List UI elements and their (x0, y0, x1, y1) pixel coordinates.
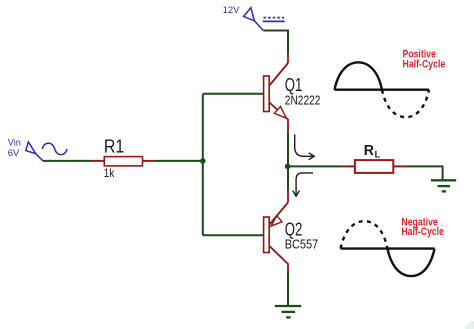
svg-text:R1: R1 (104, 137, 124, 157)
svg-text:Vin: Vin (8, 137, 21, 147)
svg-text:Half-Cycle: Half-Cycle (403, 59, 446, 71)
svg-text:BC557: BC557 (285, 237, 319, 252)
svg-text:12V: 12V (223, 5, 240, 16)
svg-text:L: L (375, 149, 381, 159)
svg-text:2N2222: 2N2222 (285, 92, 321, 107)
svg-text:Half-Cycle: Half-Cycle (401, 226, 444, 238)
svg-text:R: R (364, 143, 375, 159)
svg-text:1k: 1k (104, 166, 116, 180)
svg-text:6V: 6V (8, 148, 20, 158)
